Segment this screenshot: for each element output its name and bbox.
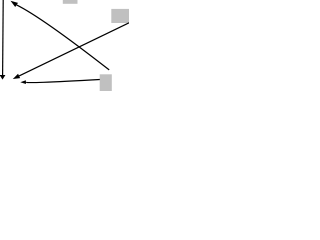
edge E1 wire (long diagonal from node N3 area up-left) (17, 5, 110, 70)
node N3 (bottom-right gray square, cut off at bottom edge) (100, 74, 112, 91)
node N2 (top-right gray square, flush with right edge) (111, 9, 129, 23)
edge E4 arrowhead (points left) (20, 80, 26, 84)
edge E1 arrowhead (points up-left toward top-left corner) (11, 1, 18, 7)
edge E2 wire (vertical line at left edge) (2, 0, 5, 75)
edge E2 arrowhead (points down) (0, 75, 5, 80)
edge E3 wire (diagonal from right edge down-left) (19, 23, 129, 76)
edge E3 arrowhead (points down-left) (13, 74, 20, 79)
background (0, 0, 129, 91)
edge E4 wire (near-horizontal from node N3 left edge) (26, 80, 100, 83)
node N1 (top-middle gray rect, cut off at top edge) (63, 0, 78, 4)
